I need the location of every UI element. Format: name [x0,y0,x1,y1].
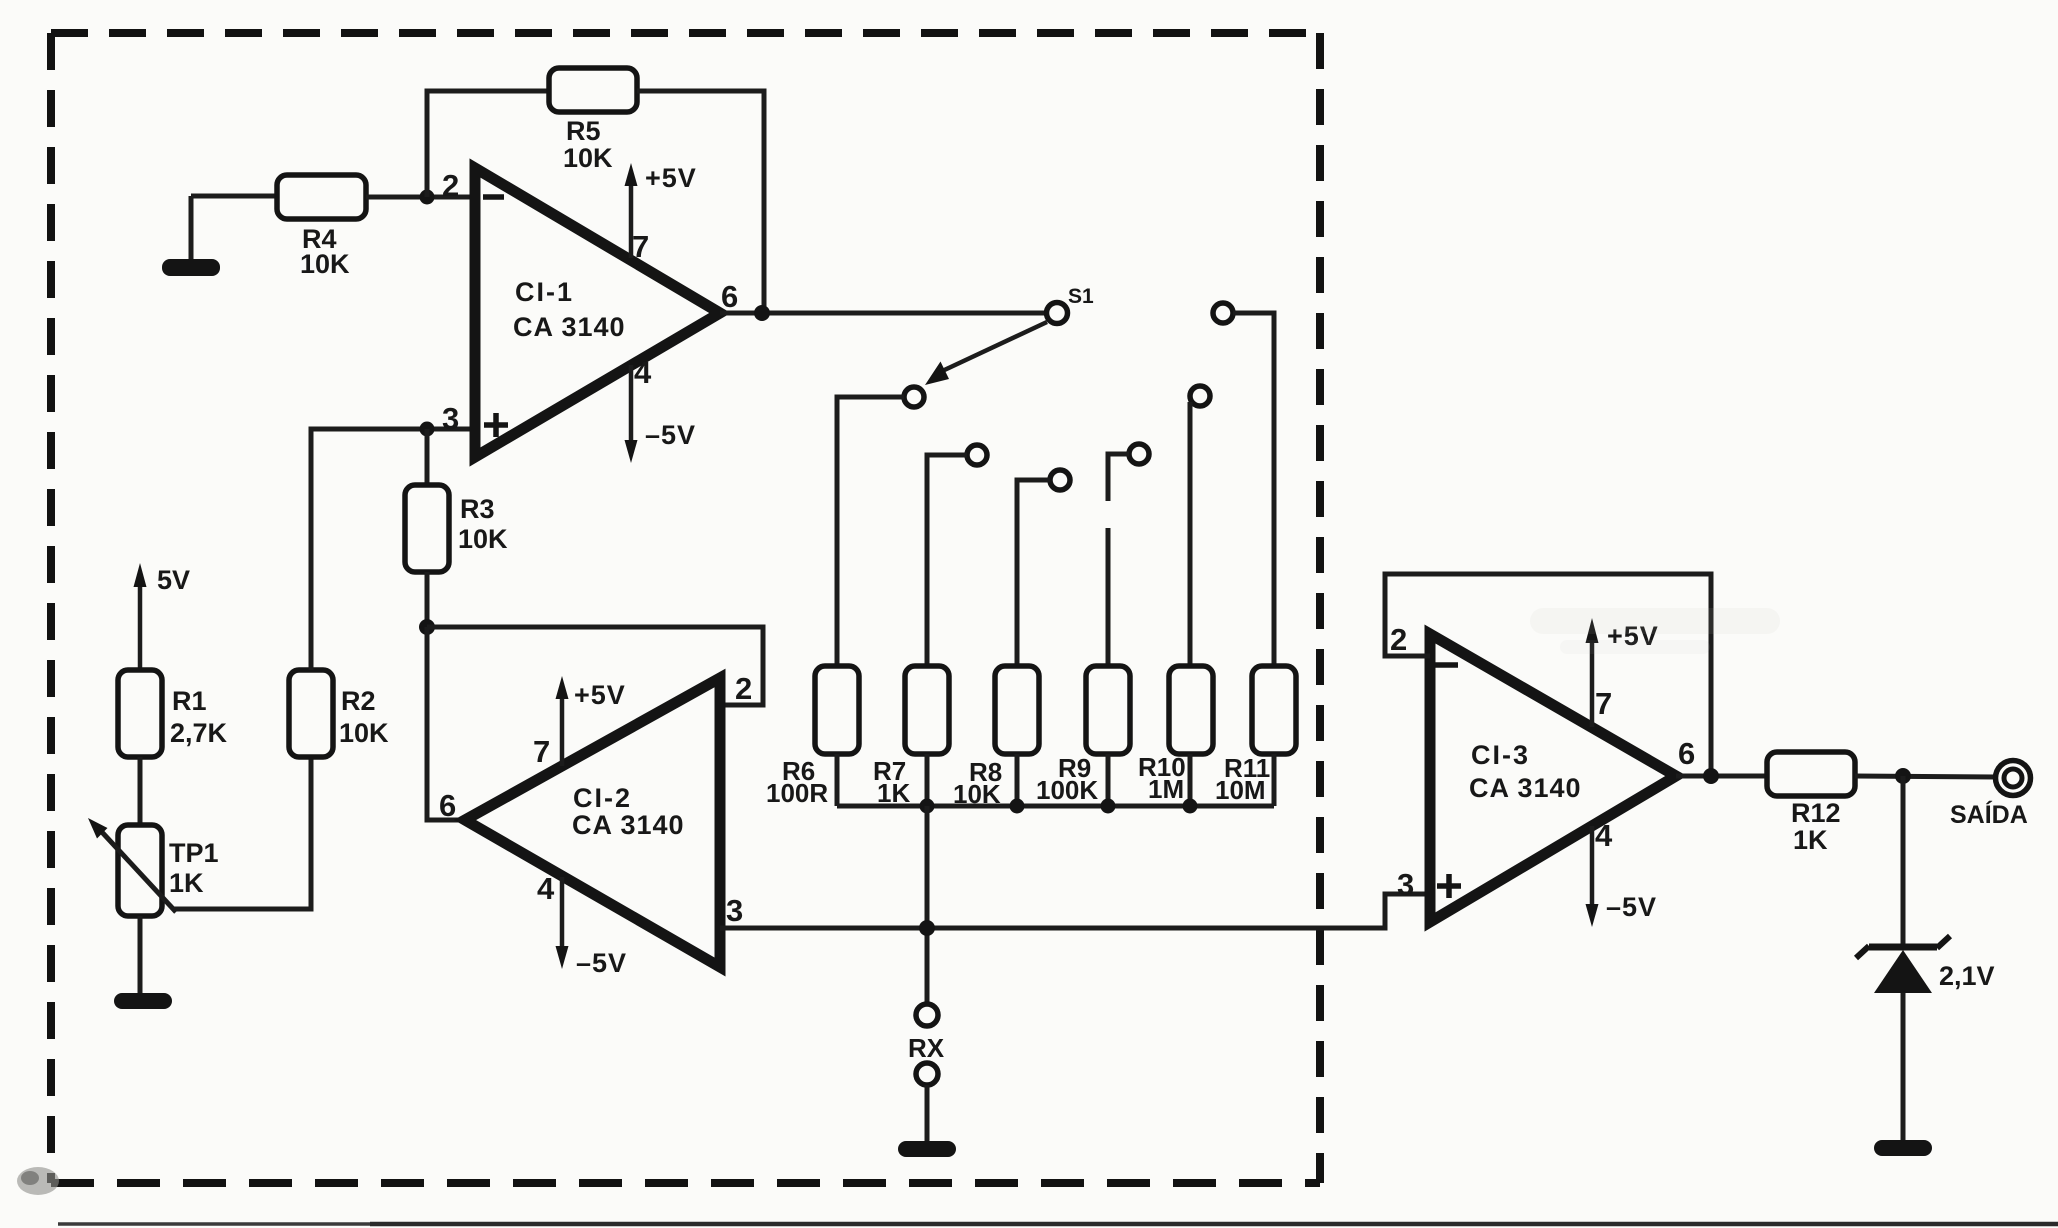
svg-text:4: 4 [1595,818,1613,853]
op-amp U1 CI-1 CA3140 [442,168,738,457]
wire (junction to CI-2 pin 2) [427,627,763,705]
node pin2 junction [420,190,435,205]
svg-text:R1: R1 [172,686,207,716]
ground (below RX) [898,1141,956,1157]
wire (TP1 to ground) [138,916,143,995]
wire (contact to R7) [927,455,967,666]
svg-text:R12: R12 [1791,798,1841,828]
terminal RX top [916,1004,938,1026]
5V arrow (top of R1) [134,563,191,670]
wire (R5 to output riser) [637,89,764,94]
switch contact (R7) [967,445,987,465]
wire (output riser down) [762,89,767,314]
svg-text:3: 3 [1397,867,1414,902]
svg-text:CA 3140: CA 3140 [572,810,685,840]
-5V arrow (CI-2 pin 4) [556,877,628,978]
wire (R3 bottom to junction) [425,572,430,627]
wire (R1 to TP1) [138,757,143,825]
svg-text:7: 7 [1595,686,1612,721]
wire (R4 to CI-1 pin 2) [366,195,475,200]
node below R3 [419,619,435,635]
wire (R2 top to pin 3 line) [309,427,314,671]
wire (pin3 junction down to R3) [425,429,430,485]
svg-text:R3: R3 [460,494,495,524]
wire (contact to R9, with print gap) [1108,454,1129,501]
ground (below TP1) [114,993,172,1009]
svg-text:–5V: –5V [1606,892,1657,922]
wire (CI-3 output) [1676,774,1767,779]
resistor R2 10K [289,670,389,757]
svg-text:CA 3140: CA 3140 [1469,773,1582,803]
wire (to R5) [425,89,550,94]
switch S1 wiper arrow [925,322,1047,385]
resistor R8 10K [953,666,1039,809]
switch contact (selected, to R6) [904,387,924,407]
switch contact (R9) [1129,444,1149,464]
svg-text:+5V: +5V [645,163,697,193]
svg-text:+5V: +5V [574,680,626,710]
op-amp U3 CI-3 CA3140 [1390,622,1695,922]
+5V arrow (CI-3 pin 7) [1586,618,1659,727]
scan streak artifact [1530,608,1780,634]
resistor R6 100R [766,666,859,808]
switch contact (R8) [1050,470,1070,490]
svg-text:100K: 100K [1036,775,1098,805]
svg-text:7: 7 [632,229,649,264]
svg-text:3: 3 [726,893,743,928]
+5V arrow (CI-2 pin 7) [556,676,626,766]
resistor R4 10K [277,175,366,279]
wire (resistor bottoms to bus) [835,754,840,806]
svg-text:R5: R5 [566,116,601,146]
svg-text:CI-2: CI-2 [573,783,632,813]
-5V arrow (CI-3 pin 4) [1586,826,1658,927]
svg-text:6: 6 [1678,736,1695,771]
wire (junction down to CI-2 output) [427,627,465,820]
svg-text:S1: S1 [1068,285,1094,308]
svg-text:6: 6 [439,788,456,823]
svg-text:TP1: TP1 [169,838,219,868]
resistor R9 100K [1036,666,1130,805]
svg-text:10K: 10K [339,718,389,748]
node zener junction [1895,768,1911,784]
svg-text:4: 4 [537,871,555,906]
wire (R12 to output terminal) [1855,776,1996,777]
page edge scan line [58,1222,370,1226]
wire (TP1 wiper to R2 bottom) [174,757,311,909]
svg-text:–5V: –5V [576,948,627,978]
wire (contact to R11) [1233,313,1274,666]
wire (zener to ground) [1901,993,1906,1140]
svg-text:10K: 10K [300,249,350,279]
dashed enclosure border [51,33,1320,1183]
wire (contact to R6) [837,397,904,666]
switch contact (R11) [1213,303,1233,323]
ground (below zener) [1874,1140,1932,1156]
svg-text:3: 3 [442,401,459,436]
svg-text:10M: 10M [1215,775,1266,805]
svg-text:4: 4 [634,355,652,390]
svg-text:2,1V: 2,1V [1939,961,1995,991]
resistor R11 10M [1215,666,1296,805]
ground (R4 input) [162,196,220,276]
wire (bottom bus) [837,804,1274,809]
resistor R7 1K [873,666,949,808]
wire (junction down to zener) [1901,776,1906,946]
wire (feedback left riser) [425,91,430,197]
wire (contact to R8) [1017,480,1050,666]
node RX junction [919,920,935,936]
svg-text:1M: 1M [1148,774,1184,804]
terminal RX bottom [916,1063,938,1085]
resistor R12 1K [1767,752,1855,855]
svg-text:2: 2 [1390,622,1407,657]
resistor R5 10K [549,68,637,173]
scan smudge bottom-left [17,1167,59,1195]
wire (RX to ground) [925,1085,930,1141]
svg-text:2: 2 [735,671,752,706]
svg-text:10K: 10K [563,143,613,173]
svg-text:1K: 1K [169,868,204,898]
terminal SAIDA [1950,761,2031,830]
node bus junctions [920,799,935,814]
wire (CI-1 output to S1) [720,311,1046,316]
svg-text:SAÍDA: SAÍDA [1950,800,2028,829]
resistor R3 10K [405,485,508,572]
svg-text:100R: 100R [766,778,828,808]
svg-text:–5V: –5V [645,420,696,450]
svg-text:CA 3140: CA 3140 [513,312,626,342]
resistor R1 2,7K [118,670,228,757]
wire (CI-2 pin 3 long run to CI-3) [720,894,1430,928]
switch contact (R10) [1190,386,1210,406]
switch S1 pole [1047,285,1095,324]
-5V arrow (CI-1 pin 4) [625,365,697,463]
wire (contact to R10) [1188,402,1193,666]
svg-text:2,7K: 2,7K [170,718,228,748]
resistor R10 1M [1138,666,1213,804]
svg-text:RX: RX [908,1033,945,1063]
svg-text:7: 7 [533,734,550,769]
svg-text:2: 2 [442,168,459,203]
svg-text:CI-1: CI-1 [515,277,574,307]
potentiometer TP1 1K [88,818,219,916]
svg-text:1K: 1K [1793,825,1828,855]
wire (pin 3 input of CI-1) [311,427,475,432]
node output junction [754,305,770,321]
svg-text:5V: 5V [157,565,190,595]
svg-text:R2: R2 [341,686,376,716]
wire (CI-3 feedback loop pin 2) [1385,574,1711,776]
zener diode D1 2,1V [1856,936,1995,993]
op-amp U2 CI-2 CA3140 (mirrored) [439,671,752,967]
svg-text:CI-3: CI-3 [1471,740,1530,770]
svg-text:6: 6 [721,279,738,314]
+5V arrow (CI-1 pin 7) [625,163,697,258]
wire (ground to R4) [191,194,277,199]
svg-text:10K: 10K [458,524,508,554]
wire (bus to RX) [925,806,930,1004]
node pin3 junction [420,422,435,437]
node CI-3 output junction [1703,768,1719,784]
